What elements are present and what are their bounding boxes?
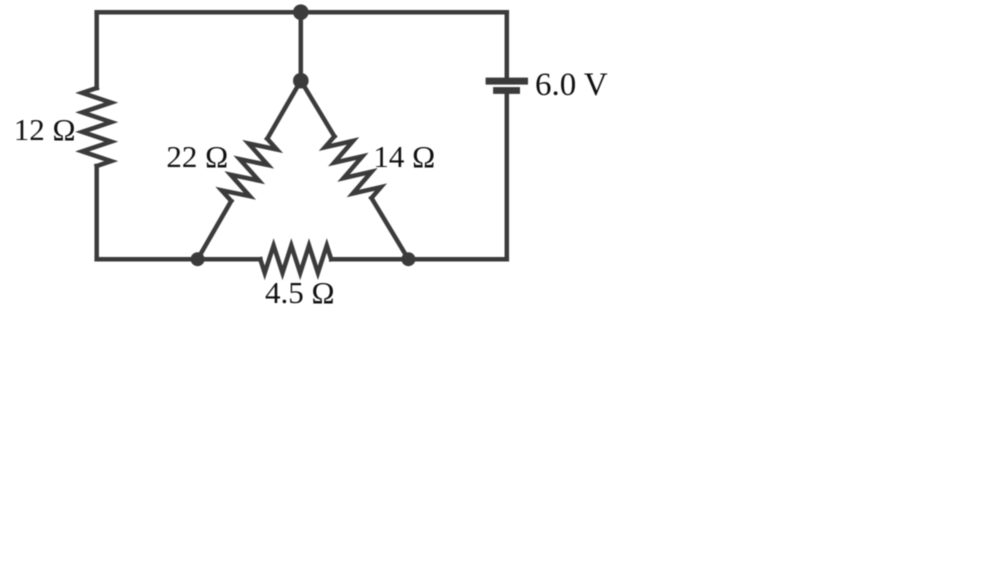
wire: apex to start of resistor R2 <box>267 81 301 139</box>
battery B1 negative plate <box>493 87 520 94</box>
wire: from top node down to triangle apex <box>299 12 304 81</box>
resistor R4 4.5 ohm <box>260 246 331 273</box>
wire: right side above battery <box>505 12 510 77</box>
wire: left side below resistor R1 <box>94 166 99 259</box>
svg-text:12 Ω: 12 Ω <box>14 112 76 147</box>
resistor R1 12 ohm <box>82 88 111 166</box>
node: triangle apex <box>293 73 309 89</box>
resistor R3 14 ohm <box>325 136 381 198</box>
wire: end of resistor R3 to right bottom node <box>372 198 409 259</box>
node: bottom left junction <box>191 252 205 266</box>
wire: right side below battery <box>505 94 510 259</box>
svg-text:14 Ω: 14 Ω <box>373 139 435 174</box>
wire: top side of loop <box>97 10 507 15</box>
svg-text:4.5 Ω: 4.5 Ω <box>265 275 335 310</box>
wire: bottom side of loop <box>97 257 261 262</box>
battery B1 positive plate <box>486 78 528 85</box>
wire: apex to start of resistor R3 <box>301 81 335 137</box>
resistor R2 22 ohm <box>222 139 277 201</box>
wire: left side above resistor R1 <box>94 12 99 88</box>
node: top junction <box>293 4 309 20</box>
node: bottom right junction <box>401 252 415 266</box>
wire: bottom side right of resistor R4 <box>331 257 507 262</box>
wire: end of resistor R2 to left bottom node <box>198 201 232 259</box>
svg-text:6.0 V: 6.0 V <box>535 67 608 103</box>
svg-text:22 Ω: 22 Ω <box>166 139 228 174</box>
